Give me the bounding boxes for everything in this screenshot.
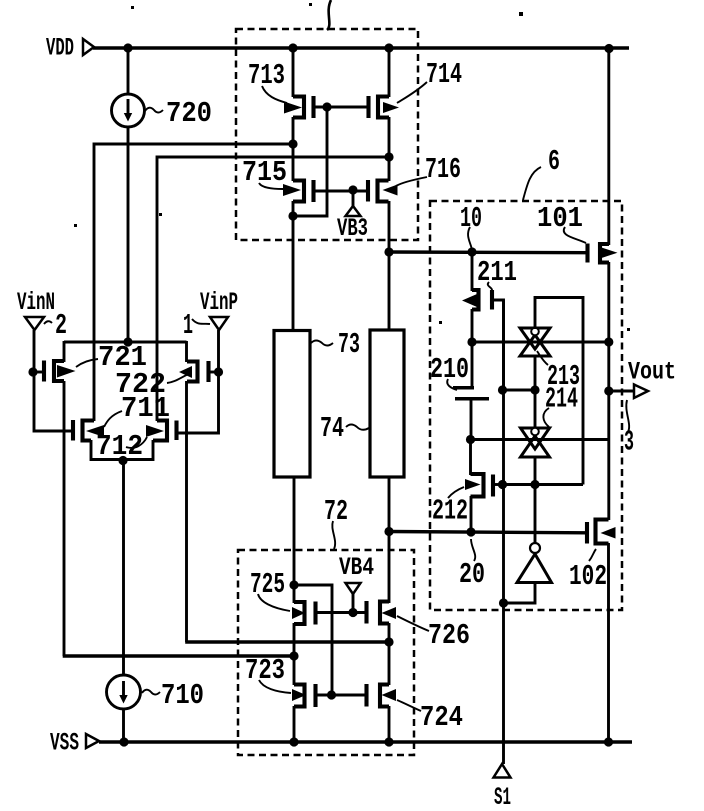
terminal VinN triangle 2	[25, 309, 67, 342]
svg-text:S1: S1	[494, 783, 511, 811]
wire 211 gate lead	[492, 300, 504, 390]
label 213	[537, 351, 580, 393]
transistor 102	[587, 520, 609, 544]
wire VinP down to 712 gate	[178, 372, 219, 433]
wire 713-714 gate line	[314, 106, 369, 109]
svg-text:VDD: VDD	[46, 34, 74, 63]
node junction VinN gates	[28, 367, 37, 376]
transmission gate 214	[521, 428, 550, 457]
node junction gate 713/714	[322, 102, 331, 111]
wire TG214 ngate down	[534, 457, 537, 485]
terminal VinN label	[17, 288, 55, 317]
wire VinN down to 711 gate	[34, 372, 73, 431]
transistor 725	[294, 602, 316, 625]
label 724	[382, 689, 464, 734]
svg-text:212: 212	[432, 495, 468, 528]
node junction 211-TG213	[467, 337, 476, 346]
wire node 10 line	[389, 250, 586, 254]
node junction VSS-710	[119, 737, 128, 746]
wire 710 to VSS	[122, 709, 125, 742]
wire VinN gate lead 721	[33, 371, 44, 374]
svg-text:713: 713	[248, 59, 285, 92]
svg-text:710: 710	[161, 679, 204, 712]
node junction inverter-S1	[499, 598, 508, 607]
svg-text:210: 210	[430, 353, 469, 386]
wire right rail top	[607, 48, 610, 245]
speck	[74, 3, 630, 331]
wire node 20 to 726	[388, 531, 391, 603]
resistor 74	[370, 330, 404, 477]
label 6	[523, 145, 560, 200]
transistor 721	[44, 361, 64, 382]
terminal VinP triangle 1	[183, 309, 228, 342]
node junction VB3	[348, 185, 357, 194]
wire VinP to 722 gate	[217, 330, 220, 372]
svg-text:VinN: VinN	[17, 288, 55, 317]
node junction 20-212	[466, 527, 475, 536]
wire 725 to 723	[293, 623, 296, 685]
svg-text:VinP: VinP	[200, 288, 238, 317]
svg-text:1: 1	[183, 309, 193, 342]
label 715	[242, 156, 301, 196]
node junction VB4	[348, 608, 357, 617]
label 211	[462, 256, 517, 307]
dashed box 6	[430, 201, 622, 610]
node junction 721drain-723	[289, 651, 298, 660]
label 210	[430, 353, 469, 390]
node junction 722drain-724	[384, 637, 393, 646]
svg-text:VSS: VSS	[50, 729, 79, 758]
node junction Vout	[604, 386, 613, 395]
resistor 73	[274, 331, 310, 478]
wire gate wiring horizontal b	[503, 483, 584, 486]
wire 726 to 724	[388, 623, 391, 685]
wire node10 to 211	[471, 252, 474, 291]
label 72	[324, 495, 348, 549]
transistor 101	[588, 244, 610, 263]
label 20	[459, 539, 485, 591]
svg-text:724: 724	[420, 701, 463, 734]
wire VDD to current source 720	[127, 48, 130, 94]
wire node10 to resistor 74	[388, 252, 391, 330]
svg-text:74: 74	[320, 412, 344, 445]
node junction VSS-723	[289, 737, 298, 746]
wire inverter input	[504, 583, 536, 604]
wire 724 source to VSS	[388, 706, 391, 742]
wire tail to current source 710	[122, 460, 125, 675]
wire TG213 ngate down	[534, 356, 537, 390]
wire 712 drain up to fold node	[157, 157, 389, 421]
wire 722 drain down fold	[185, 381, 389, 642]
label 721	[57, 341, 147, 378]
wire TG213 output line	[472, 341, 609, 344]
wire fold node to 716	[388, 157, 391, 181]
VSS terminal	[50, 729, 99, 758]
svg-text:72: 72	[324, 495, 348, 528]
terminal Vout	[628, 358, 676, 399]
terminal VB4	[339, 553, 374, 612]
transistor 712	[153, 421, 177, 441]
svg-text:VB3: VB3	[337, 214, 368, 243]
label 711	[86, 392, 170, 437]
transmission gate 213	[520, 328, 550, 356]
leader to box 71 label	[327, 0, 331, 30]
dashed box 71	[236, 29, 418, 240]
wire 721 source connect	[63, 341, 66, 362]
label 712	[96, 425, 164, 463]
label 3	[624, 400, 634, 459]
wire inverter output	[534, 485, 537, 543]
wire Vout stub	[609, 390, 634, 393]
wire 713 drain	[292, 117, 295, 144]
label 73	[311, 328, 360, 361]
transistor 726	[367, 601, 390, 624]
svg-text:101: 101	[537, 202, 583, 235]
svg-text:214: 214	[545, 383, 578, 416]
node junction cap-TG214	[466, 435, 475, 444]
wire 720 to input pair rail	[127, 127, 130, 342]
current source 710	[107, 675, 141, 709]
VDD terminal	[46, 34, 94, 63]
wire resistor 74 to node 20	[388, 477, 391, 532]
power rail VSS wire	[99, 740, 632, 743]
current source 720	[112, 94, 145, 127]
wire gate wiring horizontal a	[503, 389, 536, 392]
wire 725 drain gate-connect	[294, 585, 332, 695]
label 710	[142, 679, 204, 712]
wire cap node to 212	[469, 439, 472, 475]
svg-text:Vout: Vout	[628, 358, 676, 387]
node junction fold right	[384, 152, 393, 161]
transistor 212	[471, 474, 494, 497]
transistor 713	[293, 96, 314, 118]
wire 725-726 gate line	[316, 611, 367, 614]
node junction TG213-rail	[604, 337, 613, 346]
wire capacitor to TG214 node	[470, 399, 473, 440]
wire input pair source rail	[64, 341, 187, 344]
label 74	[320, 412, 369, 445]
wire TG213 pgate up	[535, 298, 583, 485]
power rail VDD wire	[93, 46, 629, 49]
svg-text:726: 726	[428, 619, 470, 652]
svg-text:716: 716	[425, 153, 461, 186]
svg-text:102: 102	[569, 560, 607, 593]
wire 711 drain up to fold node	[94, 144, 293, 421]
svg-text:714: 714	[426, 58, 462, 91]
svg-text:720: 720	[166, 97, 212, 130]
wire VinP gate lead 722	[209, 371, 219, 374]
svg-text:725: 725	[250, 568, 285, 601]
wire inner pair tail	[91, 440, 153, 460]
wire 714 drain	[388, 117, 391, 157]
wire VDD to 713	[292, 48, 295, 97]
svg-text:6: 6	[548, 145, 560, 178]
transistor 714	[369, 96, 390, 118]
transistor 723	[294, 684, 316, 707]
node junction VDD-720	[123, 43, 132, 52]
wire 716 drain	[388, 201, 391, 252]
node junction 716drain-node10	[384, 247, 393, 256]
wire TG213ngate to TG214pgate	[534, 390, 537, 429]
label 723	[245, 654, 306, 701]
wire right rail mid	[607, 262, 610, 520]
svg-text:20: 20	[459, 558, 485, 591]
node junction VSS-right-rail	[604, 737, 613, 746]
node junction gate wiring b	[498, 480, 540, 489]
label 214	[543, 383, 578, 428]
svg-text:10: 10	[460, 202, 482, 235]
svg-text:723: 723	[245, 654, 285, 687]
capacitor 210	[453, 388, 489, 399]
terminal VinP label	[200, 288, 238, 317]
label 726	[382, 607, 471, 652]
node junction VDD-713	[288, 43, 297, 52]
svg-text:VB4: VB4	[339, 553, 374, 582]
node junction gate wiring a	[498, 385, 540, 394]
wire 723-724 gate line	[316, 694, 367, 697]
wire gate to 715 drain	[293, 107, 327, 216]
wire 212 gate lead	[493, 483, 502, 486]
label 102	[569, 527, 616, 593]
wire node 20 line	[389, 532, 586, 533]
label 713	[248, 59, 302, 114]
wire S1 vertical	[502, 300, 505, 764]
node junction tail	[118, 456, 127, 465]
node junction fold left	[288, 139, 297, 148]
transistor 716	[368, 180, 389, 202]
node junction 720-rail	[123, 337, 132, 346]
wire fold node to 715	[292, 144, 295, 181]
inverter 215	[517, 543, 552, 583]
svg-text:211: 211	[477, 256, 517, 289]
transistor 724	[367, 684, 390, 707]
svg-text:2: 2	[55, 309, 67, 342]
transistor 711	[73, 420, 94, 441]
wire VDD to 714	[388, 48, 391, 97]
node junction node 20	[384, 527, 393, 536]
transistor 722	[187, 361, 209, 382]
transistor 211	[472, 290, 492, 310]
label 10	[460, 202, 482, 250]
wire right rail bottom	[607, 543, 610, 742]
svg-text:715: 715	[242, 156, 287, 189]
node junction 73-725-gatefold	[289, 580, 298, 589]
wire 715 drain to resistor 73	[292, 216, 295, 331]
node junction VinP gates	[214, 367, 223, 376]
label 720	[145, 97, 212, 130]
label 714	[383, 58, 462, 113]
label 212	[432, 479, 481, 528]
svg-text:73: 73	[338, 328, 360, 361]
node junction gate 723/724	[327, 690, 336, 699]
node junction VDD-right-rail	[604, 44, 613, 53]
terminal VB3	[337, 190, 368, 243]
label 722	[115, 366, 192, 401]
label 725	[250, 568, 305, 619]
label 101	[537, 202, 618, 259]
wire 722 source connect	[185, 341, 188, 362]
label 716	[383, 153, 462, 196]
wire 715-716 gate line	[314, 190, 369, 193]
wire 715 drain	[292, 201, 295, 216]
transistor 715	[293, 180, 314, 202]
wire 721 drain down fold	[63, 381, 294, 656]
terminal S1	[494, 764, 512, 811]
wire 211 to capacitor	[471, 309, 474, 387]
wire 212 source to node 20	[470, 496, 473, 532]
node junction 715 drain	[288, 211, 297, 220]
node junction VDD-714	[384, 43, 393, 52]
wire resistor 73 to 725	[293, 477, 296, 603]
wire TG214 output line	[471, 438, 609, 441]
wire VinN to 721 gate	[33, 330, 36, 372]
node junction VSS-724	[384, 737, 393, 746]
wire 723 source to VSS	[293, 706, 296, 742]
node junction 10-211	[467, 247, 476, 256]
dashed box 72	[238, 550, 414, 755]
